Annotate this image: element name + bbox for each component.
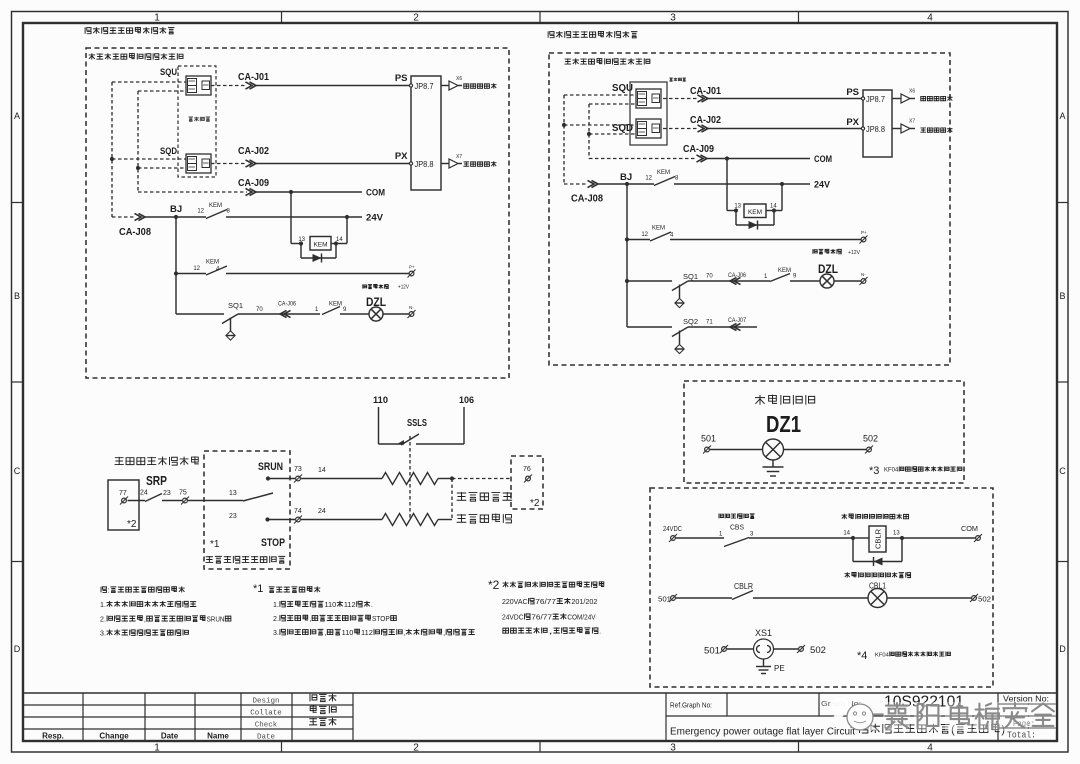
- svg-text:X7: X7: [456, 154, 462, 160]
- svg-text:1.: 1.: [100, 601, 106, 609]
- svg-text:KEM: KEM: [778, 268, 791, 274]
- svg-text:13: 13: [734, 204, 741, 210]
- svg-text:Change: Change: [99, 732, 129, 741]
- svg-text:,: ,: [324, 629, 326, 637]
- svg-text:24V: 24V: [366, 213, 384, 224]
- svg-text:KEM: KEM: [206, 260, 219, 266]
- svg-text:SQD: SQD: [160, 146, 177, 157]
- svg-text:PS: PS: [395, 73, 408, 84]
- svg-text:501: 501: [658, 595, 671, 604]
- svg-text:24VDC: 24VDC: [663, 524, 682, 533]
- svg-text:SQ1: SQ1: [683, 272, 698, 281]
- svg-text:D: D: [1059, 644, 1066, 654]
- svg-text:CA-J08: CA-J08: [571, 193, 603, 205]
- svg-text:14: 14: [336, 237, 343, 243]
- svg-text:112: 112: [344, 601, 356, 609]
- svg-text:Date: Date: [161, 732, 179, 741]
- svg-text:*3: *3: [869, 465, 879, 477]
- svg-text:DZL: DZL: [366, 297, 386, 309]
- svg-text:KF04: KF04: [875, 652, 890, 658]
- svg-text:502: 502: [810, 645, 826, 656]
- svg-text:SQ2: SQ2: [683, 317, 698, 326]
- svg-text:STOP: STOP: [372, 615, 390, 623]
- svg-text:77: 77: [119, 490, 127, 497]
- svg-text:SRUN: SRUN: [258, 461, 283, 473]
- svg-text:2.: 2.: [273, 615, 279, 623]
- svg-text:,: ,: [443, 629, 445, 637]
- svg-text:220VAC: 220VAC: [502, 598, 528, 606]
- svg-text:14: 14: [770, 204, 777, 210]
- svg-text:,: ,: [309, 615, 311, 623]
- svg-text:76/77: 76/77: [535, 598, 556, 606]
- svg-text:2.: 2.: [100, 615, 106, 623]
- svg-text:110: 110: [373, 395, 388, 405]
- svg-text:Total:: Total:: [1007, 731, 1036, 741]
- svg-text:STOP: STOP: [261, 537, 285, 549]
- svg-text:+12V: +12V: [848, 250, 860, 256]
- svg-text:1: 1: [154, 13, 160, 24]
- svg-text:CA-J01: CA-J01: [238, 71, 269, 83]
- svg-text:13: 13: [229, 490, 237, 497]
- svg-text:13: 13: [893, 531, 900, 537]
- svg-text:XS1: XS1: [755, 628, 772, 639]
- svg-text:*2: *2: [488, 578, 500, 592]
- svg-text:C: C: [14, 466, 21, 476]
- svg-text:SRP: SRP: [146, 473, 167, 488]
- svg-text:2: 2: [413, 743, 419, 754]
- svg-text:110: 110: [324, 601, 336, 609]
- svg-text:501: 501: [701, 434, 716, 444]
- svg-text:SSLS: SSLS: [407, 418, 427, 429]
- svg-text:X7: X7: [909, 119, 915, 125]
- svg-text:Design: Design: [252, 698, 279, 706]
- svg-text:PX: PX: [846, 117, 859, 128]
- svg-text:24: 24: [318, 508, 326, 515]
- svg-text::: :: [108, 586, 110, 594]
- svg-text:112: 112: [361, 629, 373, 637]
- svg-text:23: 23: [163, 490, 171, 497]
- svg-text:Emergency power outage flat la: Emergency power outage flat layer Circui…: [670, 727, 855, 738]
- svg-text:,: ,: [403, 629, 405, 637]
- svg-text:73: 73: [294, 466, 302, 473]
- svg-text:D: D: [14, 644, 21, 654]
- svg-text:24: 24: [140, 490, 148, 497]
- svg-text:76/77: 76/77: [531, 613, 552, 621]
- svg-text:CA-J06: CA-J06: [728, 272, 746, 279]
- svg-text:3: 3: [670, 13, 676, 24]
- svg-text:JP8.8: JP8.8: [866, 124, 885, 134]
- svg-text:CA-J07: CA-J07: [728, 317, 746, 324]
- svg-text:2: 2: [413, 13, 419, 24]
- svg-text:CA-J06: CA-J06: [278, 301, 296, 308]
- svg-text:KF04: KF04: [884, 467, 899, 473]
- svg-text:Ref.Graph No:: Ref.Graph No:: [670, 701, 712, 710]
- svg-text:3: 3: [670, 743, 676, 754]
- svg-text:75: 75: [179, 490, 187, 497]
- svg-text:KEM: KEM: [329, 302, 342, 308]
- svg-text:.: .: [371, 601, 373, 609]
- svg-text:24V: 24V: [814, 180, 830, 190]
- svg-text:,: ,: [548, 627, 553, 635]
- svg-text:A: A: [1059, 111, 1065, 121]
- svg-text:502: 502: [978, 595, 991, 604]
- svg-text:1: 1: [154, 743, 160, 754]
- svg-text:CA-J02: CA-J02: [238, 145, 269, 157]
- svg-text:70: 70: [706, 274, 713, 280]
- svg-text:P+: P+: [409, 265, 415, 270]
- svg-text:12: 12: [193, 266, 200, 272]
- svg-text:JP8.8: JP8.8: [415, 159, 434, 169]
- svg-text:3.: 3.: [273, 629, 279, 637]
- svg-text:76: 76: [523, 466, 531, 473]
- svg-text:KEM: KEM: [652, 226, 665, 232]
- svg-text:DZ1: DZ1: [766, 411, 801, 437]
- svg-text:X6: X6: [909, 89, 915, 95]
- svg-text:COM: COM: [961, 524, 978, 533]
- svg-text:501: 501: [704, 646, 720, 657]
- svg-text:BJ: BJ: [170, 204, 182, 215]
- svg-text:SRUN: SRUN: [207, 615, 225, 623]
- svg-text:71: 71: [706, 320, 713, 326]
- svg-text:12: 12: [641, 232, 648, 238]
- svg-text:4: 4: [927, 13, 933, 24]
- svg-text:PS: PS: [846, 87, 859, 98]
- svg-text:N-: N-: [861, 272, 866, 277]
- svg-text:Check: Check: [255, 722, 278, 730]
- svg-text:74: 74: [294, 508, 302, 515]
- svg-text:14: 14: [318, 467, 326, 474]
- svg-text:.: .: [599, 627, 601, 635]
- svg-text:201/202: 201/202: [571, 598, 597, 606]
- svg-text:KEM: KEM: [209, 203, 222, 209]
- svg-text:PX: PX: [395, 151, 408, 162]
- svg-text:PE: PE: [774, 664, 785, 673]
- svg-text:1.: 1.: [273, 601, 279, 609]
- svg-text:+12V: +12V: [398, 285, 409, 291]
- svg-text:Collate: Collate: [250, 710, 282, 718]
- svg-text:CA-J09: CA-J09: [683, 143, 714, 155]
- svg-text:12: 12: [197, 209, 204, 215]
- svg-text:CBS: CBS: [730, 523, 744, 532]
- svg-text:13: 13: [298, 237, 305, 243]
- svg-text:CA-J02: CA-J02: [690, 114, 721, 126]
- svg-text:*1: *1: [253, 583, 263, 595]
- svg-text:N-: N-: [409, 305, 414, 310]
- svg-text:KEM: KEM: [657, 170, 670, 176]
- svg-text:P+: P+: [861, 230, 867, 235]
- svg-text:,: ,: [144, 615, 146, 623]
- svg-text:23: 23: [229, 513, 237, 520]
- svg-text:B: B: [1059, 291, 1065, 301]
- svg-text:*4: *4: [857, 650, 867, 662]
- svg-text:B: B: [14, 291, 20, 301]
- svg-text:*1: *1: [210, 539, 220, 550]
- svg-text:KEM: KEM: [313, 242, 327, 249]
- svg-text:DZL: DZL: [818, 264, 838, 276]
- svg-text:70: 70: [256, 307, 263, 313]
- svg-text:SQ1: SQ1: [228, 301, 243, 310]
- svg-text:BJ: BJ: [620, 172, 632, 183]
- svg-text:COM: COM: [814, 154, 832, 164]
- svg-text:3.: 3.: [100, 629, 106, 637]
- svg-text:106: 106: [459, 395, 474, 405]
- svg-text:COM: COM: [366, 188, 385, 199]
- svg-text:CBLR: CBLR: [876, 529, 883, 549]
- svg-text:X6: X6: [456, 76, 462, 82]
- svg-text:CA-J08: CA-J08: [119, 226, 151, 238]
- svg-text:SQU: SQU: [160, 67, 177, 78]
- svg-text:JP8.7: JP8.7: [866, 94, 885, 104]
- svg-text:4: 4: [927, 743, 933, 754]
- svg-text:A: A: [14, 111, 20, 121]
- svg-text:KEM: KEM: [748, 209, 762, 216]
- svg-text:CA-J09: CA-J09: [238, 177, 269, 189]
- svg-text:CA-J01: CA-J01: [690, 85, 721, 97]
- svg-text:COM/24V: COM/24V: [567, 613, 595, 621]
- svg-text:Resp.: Resp.: [42, 732, 64, 741]
- svg-text:*2: *2: [530, 498, 540, 509]
- svg-text:Name: Name: [207, 732, 229, 741]
- svg-text:502: 502: [863, 434, 878, 444]
- svg-text:JP8.7: JP8.7: [415, 81, 434, 91]
- svg-text:24VDC: 24VDC: [502, 613, 524, 621]
- svg-text:110: 110: [342, 629, 354, 637]
- svg-text:CBLR: CBLR: [734, 582, 753, 591]
- svg-text:Date: Date: [257, 734, 275, 742]
- svg-text:14: 14: [843, 531, 850, 537]
- svg-text:12: 12: [645, 176, 652, 182]
- svg-text:C: C: [1059, 466, 1066, 476]
- svg-text:*2: *2: [127, 519, 137, 530]
